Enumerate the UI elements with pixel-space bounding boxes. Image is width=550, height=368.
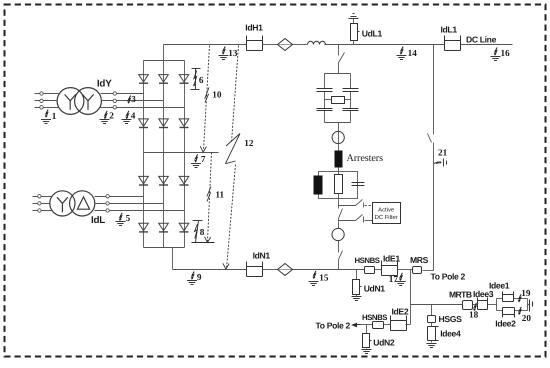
svg-text:DC Line: DC Line <box>466 35 497 45</box>
wire bridge rails and columns <box>144 45 219 270</box>
svg-text:6: 6 <box>199 75 204 85</box>
svg-text:DC Filter: DC Filter <box>375 214 398 221</box>
svg-text:Idee4: Idee4 <box>440 329 461 339</box>
valve row 1 (upper bridge top) <box>139 75 189 84</box>
CT Idee2 <box>503 308 515 318</box>
disconnector switch (top) <box>339 45 345 74</box>
ground fault 16 <box>491 48 511 61</box>
wire AC input lines upper <box>35 94 59 108</box>
svg-text:15: 15 <box>319 273 329 283</box>
arrester A2 (filled) <box>314 176 323 195</box>
svg-text:UdN1: UdN1 <box>364 284 386 294</box>
capacitor C2a <box>317 109 333 111</box>
node upper AC terminals <box>40 92 43 109</box>
valve row 2 (upper bridge bottom) <box>139 119 189 128</box>
fault marker 21 <box>434 159 447 167</box>
svg-text:MRTB: MRTB <box>449 290 472 300</box>
voltage divider UdN2 <box>362 325 395 354</box>
svg-text:17: 17 <box>389 274 399 284</box>
svg-text:IdY: IdY <box>97 79 112 90</box>
wire valve-side lines upper <box>101 94 185 108</box>
svg-text:12: 12 <box>244 138 254 148</box>
wire electrode-line bus <box>411 304 497 306</box>
node lower AC terminals <box>38 195 41 213</box>
svg-text:10: 10 <box>212 90 222 100</box>
svg-text:2: 2 <box>109 111 114 121</box>
svg-text:To Pole 2: To Pole 2 <box>316 321 351 331</box>
CT IdN1 <box>247 262 263 277</box>
switch branch to active filter (lower) <box>339 215 373 223</box>
svg-text:Idee2: Idee2 <box>495 319 516 329</box>
svg-text:IdL1: IdL1 <box>441 25 458 35</box>
ground fault 4 <box>122 111 136 124</box>
svg-text:HSNBS: HSNBS <box>362 313 387 322</box>
CT Idee1 <box>503 292 514 302</box>
arrester A1 (filled) <box>335 151 343 168</box>
svg-text:7: 7 <box>201 154 206 164</box>
ground fault 1 <box>41 110 57 124</box>
svg-text:14: 14 <box>408 48 418 58</box>
flow meter diamond (bottom) <box>278 264 293 276</box>
svg-text:Active: Active <box>378 207 395 214</box>
ground fault 5 <box>116 213 131 226</box>
wire neutral bus <box>173 270 434 271</box>
node valve-side terminals lower <box>106 195 109 213</box>
ground fault 15 <box>309 271 329 286</box>
breaker MRTB <box>463 301 473 310</box>
ground fault 14 <box>397 47 418 60</box>
svg-text:UdN2: UdN2 <box>373 338 395 348</box>
CT IdL1 <box>445 36 461 51</box>
wire electrode parallel branches <box>497 299 530 311</box>
wire AC input lines lower <box>33 197 53 211</box>
resistor (white) <box>335 175 343 194</box>
fault 19 <box>518 294 521 302</box>
CT Idee4 <box>428 327 439 341</box>
wire below network <box>339 199 343 229</box>
smoothing reactor L1 <box>308 41 326 44</box>
flow meter diamond (top) <box>278 39 293 51</box>
svg-text:IdE1: IdE1 <box>383 254 400 264</box>
svg-text:9: 9 <box>197 272 202 282</box>
svg-text:16: 16 <box>501 48 511 58</box>
passive DC filter capacitor bank <box>325 74 351 132</box>
svg-text:20: 20 <box>522 313 532 323</box>
breaker HSNBS <box>365 267 375 274</box>
valve row 4 (lower bridge bottom) <box>139 223 189 232</box>
fault element 6 (valve short) <box>191 69 201 90</box>
CT circle (upper) <box>332 131 344 143</box>
svg-text:19: 19 <box>521 288 531 298</box>
fault element 8 (valve short) <box>192 221 215 243</box>
wire top bus <box>164 44 513 46</box>
electrode terminal <box>530 300 533 312</box>
switch MRS <box>413 267 422 274</box>
svg-text:HSGS: HSGS <box>439 314 463 324</box>
svg-text:21: 21 <box>438 148 448 158</box>
ground fault 2 <box>100 111 115 124</box>
balancing resistor <box>325 97 351 104</box>
svg-text:3: 3 <box>131 94 136 104</box>
svg-text:IdN1: IdN1 <box>253 251 271 261</box>
arrester/resistor/capacitor network <box>319 172 358 199</box>
arrow To Pole 2 (left) <box>351 323 361 328</box>
fault 18 <box>473 303 476 311</box>
breaker HSNBS (lower) <box>373 322 384 329</box>
capacitor (right leg) <box>352 183 365 186</box>
wire valve-side lines lower <box>95 197 185 211</box>
svg-text:1: 1 <box>52 111 57 121</box>
voltage divider UdN1 <box>352 270 386 301</box>
svg-text:5: 5 <box>126 213 131 223</box>
capacitor C1a <box>317 89 333 92</box>
ground fault 9 <box>187 272 202 285</box>
svg-text:Arresters: Arresters <box>347 153 384 164</box>
svg-text:Idee1: Idee1 <box>489 281 510 291</box>
svg-text:UdL1: UdL1 <box>362 29 383 39</box>
voltage divider UdL1 <box>349 14 383 45</box>
capacitor C1b <box>343 89 359 92</box>
svg-text:IdE2: IdE2 <box>392 307 409 317</box>
transformer U2 IdL <box>50 191 95 216</box>
fault line 12 <box>223 46 240 270</box>
svg-text:18: 18 <box>469 310 479 320</box>
switch branch to active filter (upper) <box>339 200 373 208</box>
CT Idee3 <box>478 298 488 310</box>
fault 3 <box>127 94 136 104</box>
capacitor C2b <box>343 109 359 111</box>
ground fault 13 <box>219 47 238 60</box>
disconnector switch (bottom) <box>339 241 343 270</box>
transformer U1 IdY <box>57 88 101 115</box>
CT IdE1 <box>382 261 398 276</box>
ground fault 17 <box>389 273 406 286</box>
svg-text:IdH1: IdH1 <box>245 23 263 33</box>
svg-text:MRS: MRS <box>410 255 429 265</box>
ground fault 7 <box>191 154 206 168</box>
CT IdE2 <box>391 316 407 331</box>
svg-text:13: 13 <box>228 48 238 58</box>
svg-text:To Pole 2: To Pole 2 <box>431 272 466 282</box>
wire vertical from top bus <box>428 45 434 271</box>
switch HSGS branch <box>427 305 463 348</box>
svg-text:8: 8 <box>200 227 205 237</box>
wire stem through network <box>338 172 340 199</box>
fault 20 <box>518 307 521 315</box>
CT circle (lower) <box>332 228 344 240</box>
svg-text:IdL: IdL <box>91 215 105 226</box>
valve row 3 (lower bridge top) <box>139 176 189 185</box>
svg-text:11: 11 <box>215 190 224 200</box>
wire down from neutral bus <box>361 270 411 325</box>
CT IdH1 <box>247 36 263 51</box>
svg-text:HSNBS: HSNBS <box>355 256 380 265</box>
svg-text:4: 4 <box>131 111 136 121</box>
Active DC Filter box <box>373 203 401 224</box>
fault line 11 <box>205 153 212 243</box>
fault line 10 <box>200 46 209 153</box>
node valve-side terminals upper <box>113 92 116 109</box>
